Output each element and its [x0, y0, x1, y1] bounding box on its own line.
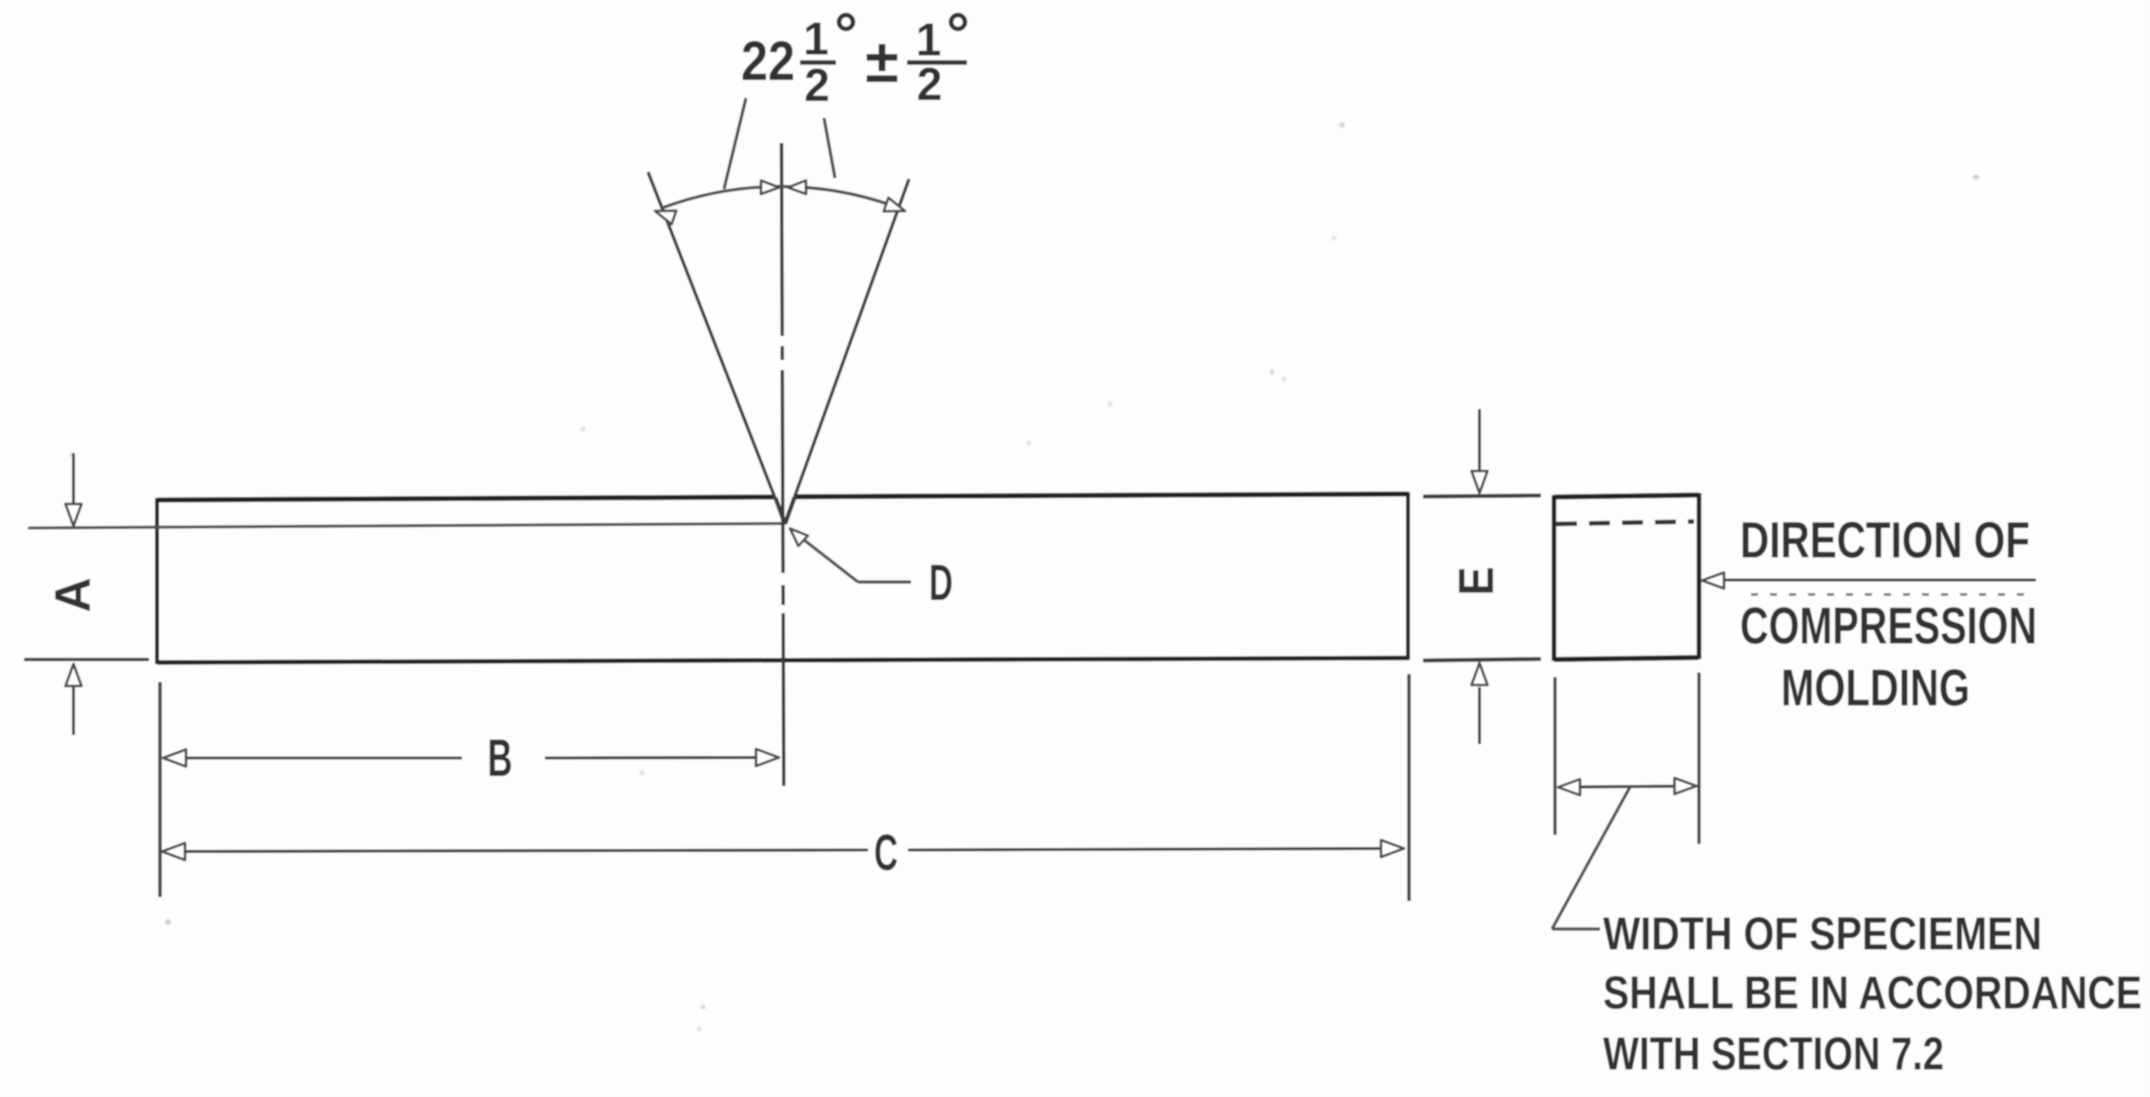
svg-text:E: E [1450, 567, 1504, 596]
svg-text:COMPRESSION: COMPRESSION [1740, 598, 2037, 656]
svg-text:2: 2 [917, 58, 943, 110]
svg-text:1: 1 [803, 13, 829, 65]
svg-text:2: 2 [804, 59, 830, 111]
svg-text:A: A [45, 578, 101, 613]
svg-text:B: B [488, 729, 513, 788]
svg-text:C: C [874, 824, 898, 881]
svg-text:±: ± [865, 27, 898, 95]
svg-text:DIRECTION OF: DIRECTION OF [1740, 512, 2030, 569]
svg-text:WIDTH OF SPECIEMEN: WIDTH OF SPECIEMEN [1603, 908, 2042, 960]
svg-text:MOLDING: MOLDING [1781, 660, 1970, 718]
svg-text:D: D [929, 554, 953, 611]
svg-text:WITH SECTION 7.2: WITH SECTION 7.2 [1603, 1028, 1944, 1080]
svg-text:22: 22 [741, 29, 795, 92]
svg-text:SHALL BE IN ACCORDANCE: SHALL BE IN ACCORDANCE [1603, 967, 2142, 1019]
